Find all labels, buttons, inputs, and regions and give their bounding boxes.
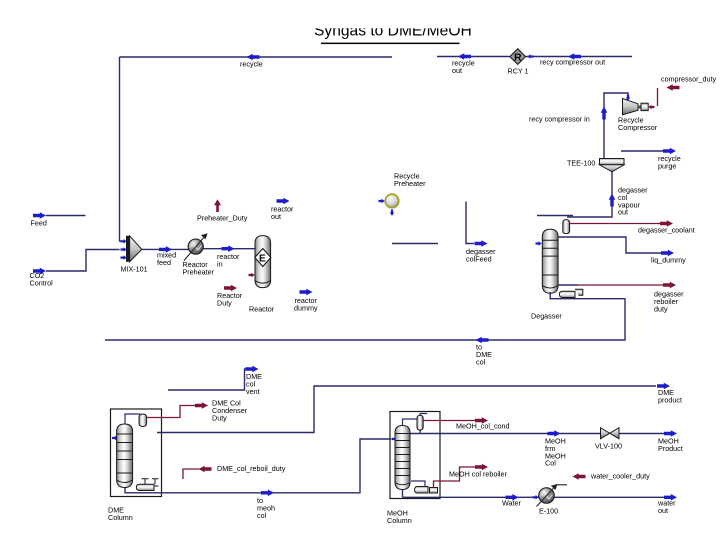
svg-text:col: col	[257, 511, 267, 520]
energy stream degasser_coolant	[570, 220, 673, 227]
valve VLV-100	[601, 428, 620, 439]
energy stream MeOH_col_cond	[423, 417, 488, 424]
subflowsheet box DME Column	[111, 409, 162, 497]
svg-text:Degasser: Degasser	[531, 312, 562, 321]
svg-text:Preheater: Preheater	[183, 268, 215, 277]
svg-text:out: out	[658, 506, 668, 515]
wire DME bottoms to meoh col	[125, 439, 391, 496]
svg-text:recy compressor in: recy compressor in	[529, 115, 590, 124]
svg-text:duty: duty	[654, 304, 668, 313]
svg-text:E: E	[259, 254, 266, 265]
wire mixed feed	[142, 246, 189, 253]
wire recy compressor in	[601, 93, 631, 158]
svg-text:in: in	[217, 260, 223, 269]
svg-text:Control: Control	[30, 278, 54, 287]
drum DME condenser	[139, 414, 147, 427]
svg-text:Duty: Duty	[217, 299, 232, 308]
wire reactor in	[203, 245, 254, 252]
svg-text:Column: Column	[108, 513, 133, 522]
svg-text:feed: feed	[157, 258, 171, 267]
svg-text:R: R	[514, 52, 522, 64]
svg-text:Column: Column	[387, 516, 412, 525]
title Syngas to DME/MeOH	[295, 0, 485, 44]
svg-text:Duty: Duty	[212, 413, 227, 422]
energy stream degasser reboiler duty	[558, 282, 676, 289]
stream arrow reactor out	[277, 198, 290, 205]
svg-text:Reactor: Reactor	[249, 305, 275, 314]
svg-text:MeOH col reboiler: MeOH col reboiler	[449, 470, 508, 479]
stream arrow reactor dummy	[300, 289, 313, 296]
svg-text:DME_col_reboil_duty: DME_col_reboil_duty	[217, 464, 286, 473]
wire liq_dummy	[558, 237, 674, 256]
wire dead-end feed segment above degasser	[537, 215, 573, 217]
energy stream Preheater_Duty	[214, 199, 221, 212]
kettle MeOH reboiler	[411, 481, 438, 493]
energy stream water_cooler_duty	[573, 473, 586, 480]
energy stream DME Col Condenser Duty	[147, 402, 208, 417]
cooler E-100	[537, 484, 568, 507]
wire recycle down-leg into mixer	[120, 57, 121, 241]
svg-text:Product: Product	[658, 444, 683, 453]
heater Reactor Preheater	[184, 233, 208, 260]
svg-text:MeOH_col_cond: MeOH_col_cond	[456, 422, 510, 431]
kettle DME reboiler	[136, 479, 158, 491]
energy stream Reactor Duty	[224, 285, 237, 292]
svg-text:RCY 1: RCY 1	[508, 67, 529, 76]
svg-text:dummy: dummy	[294, 304, 318, 313]
wire recy compressor out	[526, 53, 632, 60]
wire recycle out	[437, 53, 510, 60]
energy stream DME_col_reboil_duty	[183, 466, 212, 479]
svg-text:Preheater_Duty: Preheater_Duty	[197, 214, 248, 223]
energy stream MeOH col reboiler	[434, 464, 489, 488]
stream arrow CO2 Control	[33, 250, 120, 275]
svg-text:water_cooler_duty: water_cooler_duty	[590, 472, 650, 481]
energy stream compressor_duty	[648, 84, 679, 109]
tee TEE-100	[600, 159, 625, 172]
node DME column feed arrow	[112, 436, 118, 441]
node mixer inlet arrows	[121, 239, 127, 260]
column DME column vessel	[117, 424, 133, 488]
svg-text:out: out	[271, 212, 281, 221]
svg-text:Compressor: Compressor	[618, 123, 658, 132]
wire recycle preheater outlet segment	[392, 243, 438, 245]
sphere Recycle Preheater	[379, 194, 399, 216]
svg-text:purge: purge	[658, 162, 676, 171]
recycle operation RCY-1	[510, 49, 526, 65]
svg-text:Feed: Feed	[31, 219, 47, 228]
column MeOH column vessel	[395, 426, 410, 490]
node degasser feed inlet arrow	[536, 241, 542, 246]
wire DME column top to condenser drum	[125, 414, 140, 424]
svg-text:col: col	[476, 357, 486, 366]
wire degasser bottoms to DME col	[105, 292, 625, 343]
svg-text:MIX-101: MIX-101	[121, 265, 148, 274]
wire MeOH Product	[619, 430, 677, 437]
svg-text:out: out	[452, 66, 462, 75]
svg-text:recycle: recycle	[240, 60, 263, 69]
svg-text:recy compressor out: recy compressor out	[540, 58, 605, 67]
energy arrow into reactor	[249, 273, 255, 278]
svg-text:out: out	[618, 208, 628, 217]
wire DME overhead to DME product	[157, 383, 670, 433]
svg-text:Preheater: Preheater	[394, 179, 426, 188]
svg-text:E-100: E-100	[539, 507, 558, 516]
svg-text:compressor_duty: compressor_duty	[661, 75, 717, 84]
wire degasser col vapour out	[567, 172, 615, 217]
wire recycle purge	[621, 148, 676, 155]
compressor Recycle Compressor	[623, 99, 649, 115]
svg-text:product: product	[658, 396, 682, 405]
svg-text:Col: Col	[545, 459, 556, 468]
stream arrow Feed	[33, 212, 86, 219]
svg-text:VLV-100: VLV-100	[595, 442, 622, 451]
kettle degasser reboiler	[559, 289, 582, 297]
mixer MIX-101	[126, 236, 142, 262]
wire Water to water out	[403, 490, 678, 501]
subflowsheet box MeOH Column	[390, 412, 440, 499]
drum degasser condenser	[563, 220, 570, 234]
svg-text:liq_dummy: liq_dummy	[651, 256, 686, 265]
column Degasser	[542, 229, 558, 293]
wire MeOH overhead product	[411, 430, 601, 437]
svg-text:colFeed: colFeed	[466, 255, 492, 264]
svg-text:TEE-100: TEE-100	[567, 159, 595, 168]
reactor vessel Reactor	[255, 236, 271, 288]
wire degasser colFeed	[466, 202, 488, 247]
node MeOH column feed arrow	[392, 437, 398, 442]
drum MeOH condenser	[417, 414, 427, 434]
svg-text:Water: Water	[502, 499, 522, 508]
wire MeOH column top to condenser drum	[403, 419, 418, 426]
svg-text:vent: vent	[246, 387, 260, 396]
wire recycle (top long run)	[120, 54, 393, 61]
wire DME col vent	[168, 366, 259, 390]
svg-text:degasser_coolant: degasser_coolant	[638, 226, 695, 235]
